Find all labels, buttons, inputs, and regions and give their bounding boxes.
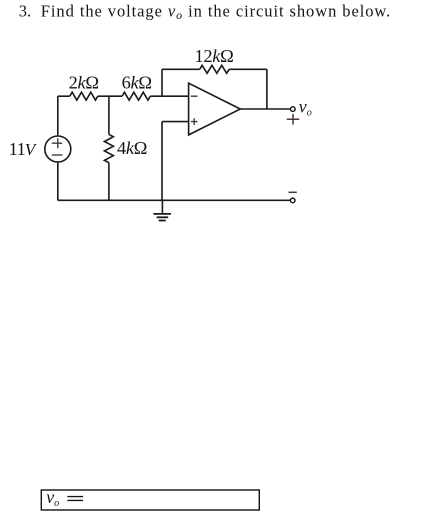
op-amp U1 triangle (189, 83, 241, 135)
wire feedback left vertical (161, 69, 163, 96)
wire noninverting input horizontal (162, 121, 189, 123)
op-amp noninverting input plus sign (191, 118, 198, 125)
voltage source VS 11V (45, 136, 71, 162)
ground stem (161, 200, 163, 213)
VS minus sign (52, 154, 63, 156)
svg-text:4kΩ: 4kΩ (117, 138, 147, 158)
wire op-amp output (240, 108, 290, 110)
node A junction wire down to R3 (108, 96, 110, 134)
wire R3 bottom to ground rail (108, 163, 110, 201)
wire bottom rail (58, 199, 291, 201)
wire feedback right vertical (266, 69, 268, 109)
wire source bottom vertical (57, 162, 59, 200)
answer box equals sign (67, 497, 83, 501)
output plus polarity mark (287, 114, 300, 125)
op-amp inverting input minus sign (191, 95, 198, 97)
wire noninverting input down to ground rail (161, 122, 163, 201)
wire source top vertical (57, 96, 59, 136)
wire top left segment (58, 95, 70, 97)
ground symbol bars (153, 214, 171, 221)
resistor R3 4k vertical (104, 134, 113, 162)
title (19, 2, 391, 23)
resistor R2 6k (122, 92, 150, 100)
wire between R1 and R2 (98, 95, 122, 97)
wire feedback top right (229, 68, 267, 70)
bottom terminal circle (290, 198, 295, 203)
resistor R4 12k feedback (200, 65, 229, 73)
output terminal vo circle (291, 107, 296, 112)
svg-text:3.: 3. (19, 2, 31, 21)
answer box (41, 490, 259, 510)
svg-text:Find the voltage vo in the cir: Find the voltage vo in the circuit shown… (41, 2, 391, 23)
wire R2 to op-amp inverting input (150, 95, 188, 97)
wire feedback top left (162, 68, 200, 70)
svg-text:12kΩ: 12kΩ (195, 46, 234, 66)
svg-text:2kΩ: 2kΩ (69, 73, 99, 93)
resistor R1 2k (70, 92, 98, 100)
svg-text:11V: 11V (9, 139, 38, 159)
bottom minus polarity mark (289, 191, 297, 193)
VS plus sign (52, 138, 62, 148)
svg-text:6kΩ: 6kΩ (122, 73, 152, 93)
